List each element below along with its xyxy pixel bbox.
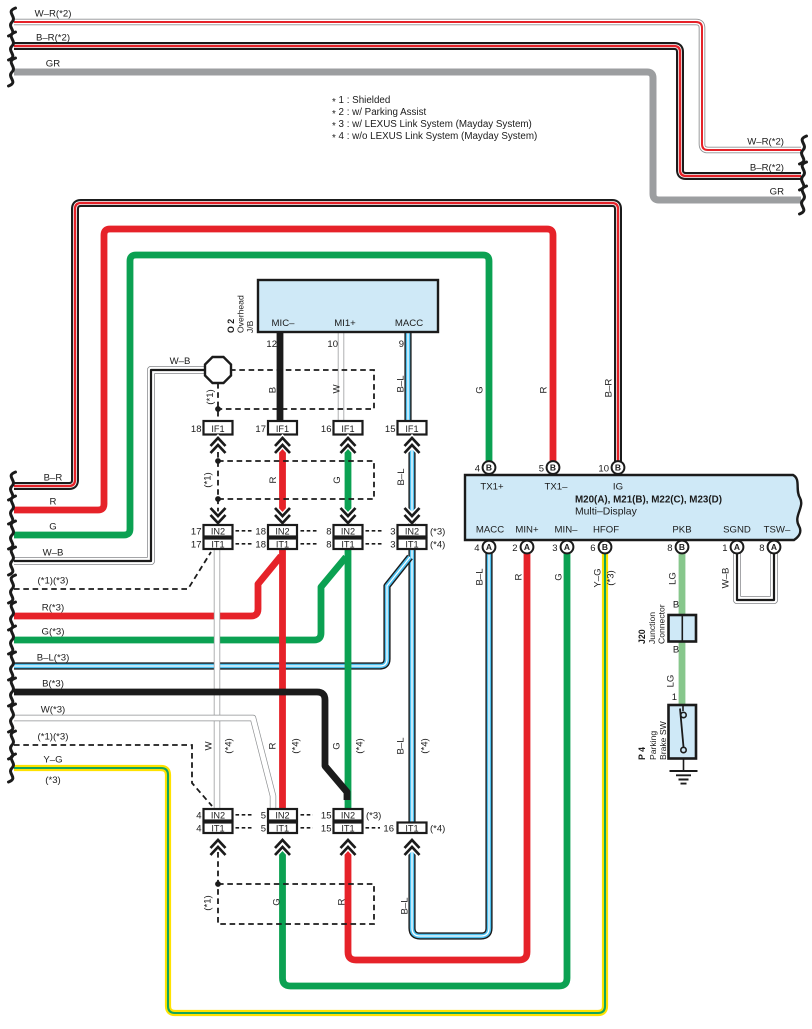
- svg-text:(*1): (*1): [203, 895, 214, 910]
- chevron: [275, 438, 290, 453]
- wire B-L(*3) branch to left edge: [14, 557, 410, 666]
- connector link dashes: [236, 827, 381, 829]
- chevron: [405, 840, 420, 855]
- svg-text:IN2: IN2: [405, 526, 419, 536]
- svg-text:R: R: [514, 573, 525, 580]
- ECU M20-M23 Multi-Display: [465, 475, 801, 540]
- junction dot: [215, 406, 221, 412]
- svg-text:IT1: IT1: [211, 823, 224, 833]
- svg-text:4: 4: [475, 464, 480, 475]
- svg-text:Multi–Display: Multi–Display: [575, 507, 638, 518]
- svg-text:R(*3): R(*3): [42, 603, 64, 614]
- svg-text:A: A: [486, 542, 492, 552]
- wire R IT1 15 to MIN+: [348, 553, 527, 960]
- break mark: [9, 547, 16, 575]
- svg-text:GR: GR: [770, 187, 784, 198]
- svg-text:IN2: IN2: [211, 810, 225, 820]
- connector IN2 18: [268, 525, 297, 537]
- svg-text:Y–G: Y–G: [43, 755, 62, 766]
- break mark: [9, 58, 16, 86]
- svg-text:Junction: Junction: [647, 612, 657, 644]
- svg-text:TSW–: TSW–: [764, 525, 791, 536]
- pin 10 B: [612, 461, 625, 474]
- svg-text:17: 17: [255, 424, 266, 435]
- svg-text:(*1)(*3): (*1)(*3): [38, 576, 69, 587]
- svg-text:18: 18: [255, 526, 266, 537]
- shield dashed box mid (around R and G wires): [218, 461, 374, 499]
- switch lever: [680, 709, 684, 748]
- svg-text:B–L: B–L: [396, 375, 407, 393]
- wire R loop to TX1-: [14, 229, 553, 510]
- svg-text:6: 6: [590, 543, 595, 554]
- svg-text:IN2: IN2: [341, 526, 355, 536]
- svg-text:12: 12: [266, 339, 277, 350]
- svg-text:W: W: [204, 741, 215, 751]
- chevron: [211, 438, 226, 453]
- svg-text:Connector: Connector: [657, 604, 667, 644]
- svg-text:B–L: B–L: [400, 897, 411, 915]
- wire G loop to TX1+: [14, 255, 489, 535]
- pin 5 B: [547, 461, 560, 474]
- shield dashed wire (*1)(*3) upper left edge: [14, 552, 211, 589]
- svg-text:IT1: IT1: [405, 539, 418, 549]
- break mark: [9, 678, 16, 706]
- svg-text:R: R: [50, 497, 57, 508]
- svg-text:(*4): (*4): [420, 738, 431, 753]
- wire B-R loop to IG: [14, 203, 618, 486]
- svg-text:15: 15: [321, 810, 332, 821]
- chevron: [211, 508, 226, 523]
- svg-text:B–R(*2): B–R(*2): [750, 163, 784, 174]
- svg-text:B(*3): B(*3): [42, 679, 64, 690]
- svg-text:W(*3): W(*3): [41, 705, 66, 716]
- svg-text:18: 18: [191, 424, 202, 435]
- connector link dashes: [236, 814, 314, 816]
- svg-text:17: 17: [191, 526, 202, 537]
- svg-text:(*3): (*3): [606, 570, 617, 585]
- svg-text:B–L: B–L: [396, 737, 407, 755]
- chevron: [275, 508, 290, 523]
- break mark: [800, 136, 807, 164]
- svg-text:W–B: W–B: [43, 548, 64, 559]
- connector IF1 15: [398, 421, 427, 435]
- svg-text:* 2 : w/ Parking Assist: * 2 : w/ Parking Assist: [332, 107, 426, 120]
- svg-text:10: 10: [598, 464, 609, 475]
- wire W-R(*2) top: [14, 22, 801, 150]
- wire R(*3) branch to left edge: [14, 556, 281, 616]
- svg-text:R: R: [268, 476, 279, 483]
- svg-text:IT1: IT1: [211, 539, 224, 549]
- svg-text:W: W: [332, 384, 343, 394]
- svg-text:5: 5: [539, 464, 544, 475]
- svg-text:4: 4: [474, 543, 479, 554]
- svg-text:B: B: [602, 542, 608, 552]
- svg-text:IG: IG: [613, 482, 623, 493]
- wire B-L IT1 16 to MACC: [412, 553, 489, 936]
- svg-text:Overhead: Overhead: [236, 295, 246, 333]
- connector IT1 17: [204, 539, 233, 550]
- connector IN2 3: [398, 525, 427, 537]
- svg-text:B: B: [615, 463, 621, 473]
- svg-text:4: 4: [196, 823, 201, 834]
- svg-text:Brake SW: Brake SW: [658, 720, 668, 760]
- pin 6 B: [599, 541, 612, 554]
- svg-text:B–L(*3): B–L(*3): [37, 653, 70, 664]
- svg-text:G: G: [332, 476, 343, 483]
- break mark: [9, 602, 16, 630]
- svg-text:8: 8: [759, 543, 764, 554]
- break mark: [9, 496, 16, 524]
- svg-text:(*4): (*4): [355, 738, 366, 753]
- svg-text:3: 3: [552, 543, 557, 554]
- svg-text:J/B: J/B: [245, 320, 255, 333]
- svg-text:18: 18: [255, 539, 266, 550]
- switch contacts: [682, 705, 684, 711]
- svg-text:M20(A), M21(B), M22(C), M23(D): M20(A), M21(B), M22(C), M23(D): [575, 495, 722, 506]
- chevron: [405, 508, 420, 523]
- shield dashed: IF1 18 to IN2 17: [217, 452, 219, 525]
- svg-text:15: 15: [385, 424, 396, 435]
- wire W(*3) from left edge to IN2 5: [14, 718, 273, 809]
- svg-text:LG: LG: [666, 675, 677, 688]
- svg-text:G: G: [475, 386, 486, 393]
- connector IT1 8: [334, 539, 363, 550]
- wire B-L IF1 15 to IN2 3: [408, 441, 415, 525]
- svg-text:B: B: [679, 542, 685, 552]
- svg-text:TX1–: TX1–: [545, 482, 569, 493]
- shield dashed box upper (around B and W wires): [218, 370, 374, 409]
- chevron: [341, 438, 356, 453]
- wire G (*4) IT1 8 to IN2 15: [345, 549, 352, 810]
- break mark: [9, 731, 16, 759]
- svg-text:2: 2: [512, 543, 517, 554]
- svg-text:G: G: [554, 573, 565, 580]
- svg-text:16: 16: [321, 424, 332, 435]
- connector IF1 16: [334, 421, 363, 435]
- connector IN2 17: [204, 525, 233, 537]
- svg-text:B–R(*2): B–R(*2): [36, 33, 70, 44]
- connector IT1 3: [398, 539, 427, 550]
- break mark: [9, 652, 16, 680]
- wire Y-G left edge to HFOF: [14, 553, 605, 1013]
- junction dot: [215, 496, 221, 502]
- wire B pin12 to IF1 17: [277, 332, 284, 421]
- svg-text:A: A: [771, 542, 777, 552]
- switch P4 Parking Brake SW: [669, 705, 697, 759]
- svg-text:IT1: IT1: [276, 823, 289, 833]
- svg-text:Parking: Parking: [648, 731, 658, 760]
- svg-text:3: 3: [390, 539, 395, 550]
- connector IT1 15: [334, 823, 363, 834]
- svg-text:A: A: [734, 542, 740, 552]
- connector IN2 5: [268, 809, 297, 821]
- svg-text:IF1: IF1: [405, 424, 418, 434]
- svg-text:W–R(*2): W–R(*2): [747, 137, 784, 148]
- svg-text:B–L: B–L: [475, 568, 486, 586]
- svg-text:SGND: SGND: [723, 525, 751, 536]
- connector link dashes: [236, 543, 384, 545]
- junction dot: [215, 458, 221, 464]
- svg-text:(*4): (*4): [224, 738, 235, 753]
- wire GR top: [14, 72, 801, 200]
- svg-text:GR: GR: [46, 59, 60, 70]
- svg-text:IT1: IT1: [276, 539, 289, 549]
- chevron: [275, 840, 290, 855]
- svg-text:J20: J20: [637, 629, 647, 644]
- break mark: [800, 186, 807, 214]
- svg-text:(*4): (*4): [430, 539, 445, 550]
- svg-text:B: B: [673, 645, 679, 656]
- svg-text:10: 10: [327, 339, 338, 350]
- junction dot: [215, 881, 221, 887]
- svg-text:(*4): (*4): [291, 738, 302, 753]
- pin 4 B: [483, 461, 496, 474]
- svg-text:1: 1: [722, 543, 727, 554]
- junction connector J20: [669, 615, 697, 642]
- svg-text:3: 3: [390, 526, 395, 537]
- break mark: [9, 626, 16, 654]
- svg-text:B–R: B–R: [604, 379, 615, 398]
- svg-text:HFOF: HFOF: [593, 525, 619, 536]
- svg-text:O 2: O 2: [226, 319, 236, 333]
- svg-text:8: 8: [326, 539, 331, 550]
- shield dashed: IT1 4 down: [217, 852, 219, 884]
- pin 8 B: [676, 541, 689, 554]
- chevron: [341, 840, 356, 855]
- svg-text:IT1: IT1: [405, 823, 418, 833]
- svg-text:* 4 : w/o LEXUS Link System (M: * 4 : w/o LEXUS Link System (Mayday Syst…: [332, 131, 537, 144]
- connector link dashes: [236, 530, 384, 532]
- junction block O2 Overhead J/B: [258, 280, 438, 332]
- wire B-R(*2) top: [14, 46, 801, 176]
- svg-text:1: 1: [672, 692, 677, 703]
- svg-text:W–R(*2): W–R(*2): [35, 9, 72, 20]
- svg-text:(*4): (*4): [430, 823, 445, 834]
- svg-text:IN2: IN2: [275, 810, 289, 820]
- wire R (*4) IT1 18 to IN2 5: [279, 549, 286, 810]
- pin 4 A: [483, 541, 496, 554]
- svg-text:B–R: B–R: [44, 473, 63, 484]
- svg-text:B: B: [673, 600, 679, 611]
- svg-text:G: G: [49, 522, 56, 533]
- svg-text:15: 15: [321, 823, 332, 834]
- chevron: [405, 438, 420, 453]
- chevron: [211, 840, 226, 855]
- pin 1 A: [731, 541, 744, 554]
- svg-text:5: 5: [261, 823, 266, 834]
- svg-text:(*3): (*3): [430, 526, 445, 537]
- svg-text:4: 4: [196, 810, 201, 821]
- connector IN2 4: [204, 809, 233, 821]
- svg-text:MIN–: MIN–: [555, 525, 579, 536]
- svg-text:G(*3): G(*3): [42, 627, 65, 638]
- shield dashed box bottom (around G and R wires): [218, 884, 374, 924]
- svg-text:W–B: W–B: [170, 356, 191, 367]
- svg-text:5: 5: [261, 810, 266, 821]
- break mark: [9, 754, 16, 782]
- wire R IF1 17 to IN2 18: [279, 441, 286, 525]
- connector IF1 18: [204, 421, 233, 435]
- connector IN2 8: [334, 525, 363, 537]
- svg-text:(*3): (*3): [45, 775, 60, 786]
- svg-text:MI1+: MI1+: [334, 318, 356, 329]
- wire LG PKB to Parking Brake SW: [679, 553, 686, 707]
- svg-text:R: R: [337, 898, 348, 905]
- wire W pin10 to IF1 16: [338, 332, 344, 421]
- connector IT1 16: [398, 823, 427, 834]
- pin 2 A: [521, 541, 534, 554]
- connector IT1 4: [204, 823, 233, 834]
- shield ground octagon: [205, 357, 231, 383]
- svg-text:A: A: [524, 542, 530, 552]
- svg-text:* 3 : w/ LEXUS Link System (Ma: * 3 : w/ LEXUS Link System (Mayday Syste…: [332, 119, 532, 132]
- svg-text:8: 8: [326, 526, 331, 537]
- shield dashed wire (*1)(*3) lower left edge: [14, 745, 212, 806]
- break mark: [800, 162, 807, 190]
- break mark: [9, 575, 16, 603]
- wire W-B to shield octagon: [14, 370, 206, 561]
- svg-text:16: 16: [383, 823, 394, 834]
- svg-text:(*1): (*1): [205, 389, 216, 404]
- svg-text:MIN+: MIN+: [515, 525, 539, 536]
- wire W-B SGND to TSW-: [737, 553, 774, 600]
- svg-text:9: 9: [399, 339, 404, 350]
- chevron: [341, 508, 356, 523]
- svg-text:IN2: IN2: [341, 810, 355, 820]
- connector IT1 5: [268, 823, 297, 834]
- ground: [683, 759, 685, 772]
- svg-text:IF1: IF1: [211, 424, 224, 434]
- wire B-L (*4) IT1 3 to IT1 16: [408, 549, 415, 822]
- wire G(*3) branch to left edge: [14, 557, 346, 640]
- svg-text:17: 17: [191, 539, 202, 550]
- svg-text:B: B: [268, 387, 279, 393]
- svg-text:(*1)(*3): (*1)(*3): [38, 732, 69, 743]
- svg-text:IT1: IT1: [341, 539, 354, 549]
- break mark: [9, 472, 16, 500]
- svg-text:G: G: [272, 898, 283, 905]
- wire B-L pin9 to IF1 15: [404, 332, 411, 421]
- svg-text:8: 8: [667, 543, 672, 554]
- svg-text:MACC: MACC: [395, 318, 423, 329]
- svg-text:* 1 : Shielded: * 1 : Shielded: [332, 95, 390, 108]
- shield dashed: octagon to IF1 18: [217, 383, 219, 421]
- svg-text:IF1: IF1: [341, 424, 354, 434]
- svg-text:G: G: [332, 742, 343, 749]
- svg-text:PKB: PKB: [672, 525, 691, 536]
- svg-text:TX1+: TX1+: [480, 482, 504, 493]
- wire B(*3) from left edge to IN2 15: [14, 692, 347, 800]
- svg-text:B: B: [486, 463, 492, 473]
- connector IT1 18: [268, 539, 297, 550]
- break mark: [9, 521, 16, 549]
- svg-text:MIC–: MIC–: [272, 318, 296, 329]
- svg-text:IT1: IT1: [341, 823, 354, 833]
- svg-text:W–B: W–B: [721, 568, 732, 589]
- svg-text:A: A: [564, 542, 570, 552]
- svg-text:LG: LG: [668, 572, 679, 585]
- J20 divider: [681, 615, 683, 642]
- svg-text:B–L: B–L: [396, 468, 407, 486]
- wire G IF1 16 to IN2 8: [345, 441, 352, 525]
- svg-text:(*3): (*3): [366, 810, 381, 821]
- svg-text:B: B: [550, 463, 556, 473]
- wire G IT1 5 to MIN-: [283, 553, 568, 986]
- svg-text:(*1): (*1): [203, 472, 214, 487]
- connector IN2 15: [334, 809, 363, 821]
- connector IF1 17: [268, 421, 297, 435]
- svg-text:R: R: [539, 386, 550, 393]
- wire W (*4) IT1 17 to IN2 4: [214, 549, 220, 810]
- pin 8 A: [768, 541, 781, 554]
- svg-text:Y–G: Y–G: [593, 568, 604, 587]
- svg-text:P 4: P 4: [637, 747, 647, 760]
- break mark: [9, 32, 16, 60]
- svg-text:IN2: IN2: [275, 526, 289, 536]
- svg-text:R: R: [268, 742, 279, 749]
- svg-text:IF1: IF1: [276, 424, 289, 434]
- break mark: [9, 704, 16, 732]
- svg-text:IN2: IN2: [211, 526, 225, 536]
- svg-text:MACC: MACC: [476, 525, 504, 536]
- pin 3 A: [561, 541, 574, 554]
- break mark: [9, 8, 16, 36]
